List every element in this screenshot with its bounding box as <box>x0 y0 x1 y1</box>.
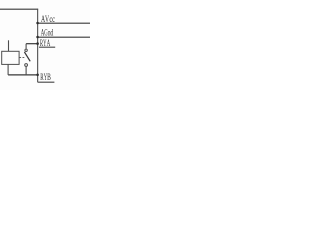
svg-text:G: G <box>44 28 47 38</box>
svg-text:R: R <box>40 71 44 82</box>
svg-text:Y: Y <box>43 38 46 48</box>
svg-text:B: B <box>47 72 51 83</box>
svg-text:d: d <box>50 27 53 38</box>
svg-text:A: A <box>47 39 51 49</box>
svg-text:c: c <box>52 14 55 24</box>
